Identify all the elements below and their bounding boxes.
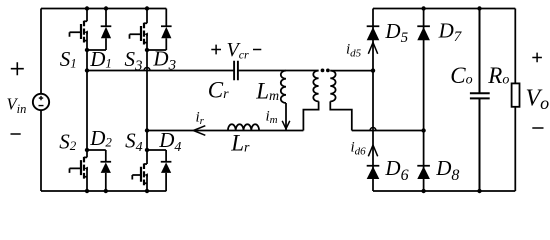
svg-text:D7: D7: [438, 19, 463, 45]
svg-text:Vin: Vin: [7, 95, 27, 117]
svg-text:Vo: Vo: [526, 85, 550, 113]
svg-text:S3: S3: [125, 47, 143, 74]
svg-text:id5: id5: [346, 42, 362, 60]
svg-text:D3: D3: [152, 47, 176, 74]
svg-text:Cr: Cr: [208, 78, 229, 103]
svg-text:Vcr: Vcr: [227, 39, 250, 62]
svg-text:Ro: Ro: [487, 63, 509, 88]
svg-text:S2: S2: [59, 130, 76, 154]
svg-text:Lm: Lm: [255, 79, 279, 105]
svg-text:D5: D5: [384, 19, 408, 46]
svg-text:D6: D6: [384, 156, 408, 184]
svg-text:D1: D1: [89, 47, 112, 71]
svg-text:id6: id6: [351, 140, 367, 158]
svg-text:D8: D8: [435, 156, 459, 184]
svg-text:S4: S4: [125, 129, 143, 156]
svg-text:D4: D4: [158, 128, 181, 155]
svg-text:D2: D2: [89, 126, 112, 150]
svg-text:S1: S1: [60, 47, 77, 71]
svg-text:Lr: Lr: [230, 131, 250, 156]
svg-text:Co: Co: [450, 63, 472, 88]
svg-text:ir: ir: [196, 110, 205, 128]
svg-text:im: im: [266, 109, 278, 127]
